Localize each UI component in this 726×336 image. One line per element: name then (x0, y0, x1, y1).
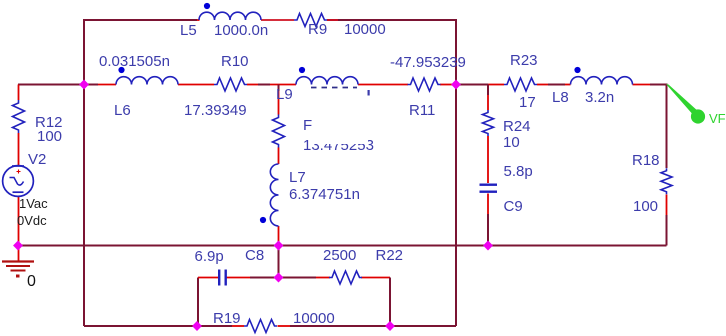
wire C8 row left corner down (197, 278, 199, 327)
wire top rail right (maroon) (327, 19, 456, 21)
svg-text:F: F (303, 117, 312, 134)
wire R19 to node390 (278, 325, 291, 327)
wire R22 corner down to bottom row (389, 278, 391, 327)
wire bottom row node to R19 (197, 325, 232, 327)
wire R18 stubs (red) (666, 195, 668, 216)
inductor L7 (270, 164, 278, 226)
wire right column top (maroon) (666, 85, 668, 169)
inductor L6 (116, 77, 178, 85)
svg-text:V2: V2 (28, 151, 46, 168)
wire row2 L8 to right corner (633, 84, 651, 86)
wire R22 to corner (361, 277, 390, 279)
wire row2 node to L6 (84, 84, 98, 86)
capacitor C9 (480, 184, 498, 193)
node C8 row (274, 273, 284, 283)
svg-text:C9: C9 (504, 198, 523, 215)
svg-text:1000.0n: 1000.0n (214, 22, 268, 39)
svg-text:10: 10 (503, 134, 520, 151)
node ground (13, 241, 23, 251)
inductor L5 (199, 12, 261, 20)
wire row2 R23 to L8 (537, 84, 548, 86)
svg-text:R19: R19 (213, 310, 241, 327)
svg-text:L7: L7 (289, 169, 306, 186)
hidden L9 value dashes (311, 87, 357, 89)
wire row2 L9 to R11 (red) (358, 84, 408, 86)
svg-text:VF: VF (709, 111, 726, 126)
svg-text:L5: L5 (180, 22, 197, 39)
svg-text:6.374751n: 6.374751n (289, 186, 360, 203)
svg-text:R23: R23 (510, 52, 538, 69)
wire row2 source to node (maroon) (18, 84, 84, 86)
svg-text:R11: R11 (409, 102, 435, 119)
resistor R24 (483, 110, 494, 136)
svg-text:100: 100 (37, 128, 62, 145)
wire right column bottom (maroon) (666, 215, 668, 246)
svg-text:2500: 2500 (323, 247, 356, 264)
wire C8 row left stub (red) (198, 277, 219, 279)
wire row2 L6 to R10 (red) (178, 84, 214, 86)
resistor R18 (661, 168, 672, 194)
svg-text:17: 17 (519, 94, 536, 111)
pin dot L8 (574, 67, 580, 73)
inductor L9 (296, 77, 358, 85)
wire main rail (maroon) (18, 245, 667, 247)
resistor R23 (504, 78, 537, 91)
probe VF (666, 84, 705, 124)
svg-text:L8: L8 (552, 89, 569, 106)
svg-text:0Vdc: 0Vdc (17, 213, 47, 228)
wire C8 right to node (red/maroon) (227, 277, 251, 279)
resistor R9 (294, 14, 327, 27)
svg-text:R18: R18 (632, 152, 660, 169)
ground 0 (2, 262, 34, 278)
svg-text:10000: 10000 (293, 310, 335, 327)
node bottom-right (385, 321, 395, 331)
svg-text:R9: R9 (308, 21, 327, 38)
wire top rail L5 stub (red) (197, 19, 200, 21)
wire middle branch down from row2 (red) (278, 85, 280, 92)
node rail-right (483, 241, 493, 251)
wire node to R22 (279, 277, 317, 279)
wire bottom row right (390, 325, 456, 327)
wire left column top (x=84) (83, 19, 85, 326)
svg-text:100: 100 (633, 198, 658, 215)
resistor Rmid (vertical, partially hidden ref) (273, 115, 285, 148)
pin dot L6 (118, 67, 124, 73)
wire row2 node456 to R23 (456, 84, 488, 86)
resistor R22 (329, 271, 362, 284)
node row2-left (79, 80, 89, 90)
wire ground stub (18, 246, 20, 261)
node rail-middle (274, 241, 284, 251)
pin dot L9 (299, 67, 305, 73)
svg-text:10000: 10000 (344, 21, 386, 38)
svg-text:L6: L6 (114, 102, 131, 119)
resistor R10 (214, 78, 247, 91)
node row2-right (451, 80, 461, 90)
wire top rail R9 stub (red) (327, 19, 338, 21)
svg-text:C8: C8 (245, 247, 264, 264)
svg-text:3.2n: 3.2n (585, 89, 614, 106)
svg-text:0.031505n: 0.031505n (99, 53, 170, 70)
wire top rail left (maroon) (84, 19, 197, 21)
wire C9 to rail (487, 194, 489, 215)
svg-text:5.8p: 5.8p (504, 163, 533, 180)
resistor R12 (13, 100, 25, 133)
wire L7 to rail (red) (278, 226, 280, 246)
svg-text:R10: R10 (221, 53, 249, 70)
inductor L8 (571, 77, 633, 85)
wire left column R12/V2 (x=18.5 red) (18, 85, 20, 101)
svg-text:R24: R24 (503, 118, 531, 135)
svg-text:1Vac: 1Vac (19, 196, 48, 211)
svg-text:17.39349: 17.39349 (184, 102, 247, 119)
svg-text:6.9p: 6.9p (195, 248, 224, 265)
capacitor C8 (218, 270, 227, 286)
resistor R19 (244, 320, 277, 333)
wire R24 to C9 (red) (487, 136, 489, 183)
node bottom-left (192, 321, 202, 331)
pin dot L5 (204, 3, 210, 9)
svg-text:R22: R22 (376, 247, 404, 264)
wire R24 branch top (red) (487, 85, 489, 96)
wire bottom row left segment (84, 325, 197, 327)
hidden text tick (368, 90, 370, 96)
resistor R11 (408, 78, 441, 91)
wire right vertical x=456 (455, 19, 457, 326)
wire rail to C8 row (maroon) (278, 246, 280, 278)
svg-text:0: 0 (27, 273, 36, 290)
svg-text:-47.953239: -47.953239 (390, 54, 466, 71)
pin dot L7 (260, 217, 266, 223)
hidden value 13.475253 (partially covered) (303, 129, 374, 154)
svg-text:L9: L9 (276, 86, 293, 103)
source V2 (3, 166, 34, 197)
wire top rail L5 to R9 (red) (261, 19, 294, 21)
wire row2 R10 to L9 (red/maroon) (247, 84, 258, 86)
wire mid resistor to L7 (red) (278, 148, 280, 165)
wire row2 R11 to node456 (red) (440, 84, 456, 86)
